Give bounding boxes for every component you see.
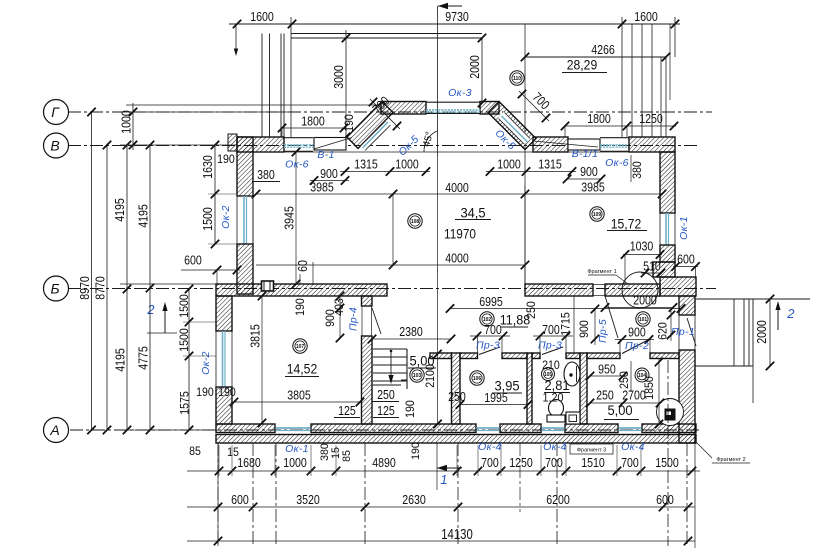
dim chain 4195-4195 (126, 145, 128, 430)
svg-text:2: 2 (786, 306, 795, 321)
svg-text:110: 110 (513, 76, 521, 82)
door Пр-4 opening jamb lines (361, 306, 363, 336)
svg-text:1500: 1500 (177, 328, 191, 352)
svg-text:А: А (49, 422, 59, 438)
svg-text:5,00: 5,00 (409, 353, 434, 369)
vent В-1/1 box (568, 139, 600, 150)
svg-text:В-1: В-1 (317, 149, 334, 161)
svg-text:1715: 1715 (559, 312, 573, 336)
window Ок-1 right glazing (665, 213, 667, 245)
svg-text:1630: 1630 (200, 155, 215, 179)
svg-text:3815: 3815 (248, 324, 263, 348)
window Ок-2 upper glazing (243, 196, 245, 244)
svg-text:125: 125 (338, 403, 356, 418)
svg-text:190: 190 (410, 442, 422, 460)
svg-text:4775: 4775 (136, 346, 151, 370)
svg-text:600: 600 (677, 252, 695, 267)
dim 510 right (641, 272, 661, 274)
axis circle В (44, 133, 69, 158)
window Ок-1 right opening lines (661, 212, 675, 214)
dim 1630-1500 left chain (214, 145, 216, 244)
terrace step lines right (631, 24, 633, 137)
svg-text:1: 1 (440, 472, 448, 487)
svg-text:В: В (50, 138, 59, 154)
svg-text:8970: 8970 (77, 276, 92, 300)
svg-text:190: 190 (217, 152, 235, 166)
svg-text:620: 620 (656, 322, 670, 340)
door Пр-2 jamb lines (619, 339, 621, 353)
svg-text:1800: 1800 (301, 114, 325, 129)
door Пр-4 leaf (372, 308, 381, 334)
dim 2000 vertical at bay (481, 38, 483, 103)
dim chain 8770 (106, 145, 108, 430)
top dimension line (229, 23, 680, 25)
svg-text:250: 250 (596, 388, 614, 403)
svg-text:14,52: 14,52 (287, 361, 318, 377)
dim line 3985-4000-3985 (256, 193, 662, 195)
svg-text:1510: 1510 (581, 455, 605, 470)
svg-text:1000: 1000 (395, 157, 419, 172)
svg-text:700: 700 (481, 455, 499, 470)
room 108 interior outline lines (252, 152, 254, 284)
extension line x291 down to wall (290, 38, 292, 137)
dim 3000 vertical line (345, 30, 347, 137)
svg-text:4890: 4890 (372, 455, 396, 470)
section mark 1 top arrow (438, 5, 462, 7)
room tag 107 (293, 339, 307, 353)
svg-text:28,29: 28,29 (567, 57, 598, 73)
room tag 110 (510, 71, 524, 85)
dim 3805 room 107 (234, 401, 360, 403)
canopy edge line above row В (126, 104, 381, 106)
bay right diagonal wall (488, 102, 536, 150)
dim 900 door Пр-2 (615, 339, 654, 341)
porch top edge line (695, 298, 810, 300)
bottom extension short lines (218, 445, 220, 476)
svg-text:Ок-4: Ок-4 (478, 441, 502, 453)
room tag 101 (636, 312, 650, 326)
window Ок-6 right glazing (600, 144, 629, 146)
room tag 104 (635, 368, 649, 382)
small wall finish top-left corner (228, 134, 237, 151)
section mark 1 bottom (437, 467, 462, 469)
svg-text:34,5: 34,5 (460, 205, 485, 221)
wall stair left partition (362, 296, 373, 306)
dim 1800 bay left line (282, 127, 346, 129)
svg-text:1600: 1600 (250, 9, 274, 24)
axis В line (68, 145, 700, 147)
svg-text:900: 900 (580, 164, 598, 179)
section line 1 vertical (437, 6, 439, 156)
section mark 2 left arrow (164, 304, 166, 333)
left extension horizontal lines (120, 144, 237, 146)
svg-text:210: 210 (542, 358, 560, 372)
svg-text:6200: 6200 (546, 492, 570, 507)
dim 900 В-1/1 line (567, 178, 601, 180)
wall bottom row А outer band (216, 435, 696, 444)
window Ок-6 right opening lines (600, 137, 629, 139)
wall right porch step (660, 277, 696, 296)
svg-text:190: 190 (293, 298, 307, 316)
dim line 1000-1315 right (486, 171, 576, 173)
vent В-1 box (314, 138, 346, 151)
stairs direction arrow (390, 351, 392, 381)
dim line 4000 lower (256, 264, 525, 266)
svg-text:4195: 4195 (113, 348, 128, 372)
corridor bottom wall segment c (566, 353, 580, 359)
svg-text:2000: 2000 (633, 293, 657, 308)
bottom extension dash-dot lines (217, 443, 219, 546)
vent В-1/1 leader line (533, 141, 598, 147)
svg-text:85: 85 (341, 450, 353, 462)
room tag 109 (590, 207, 604, 221)
stairs treads (373, 348, 407, 350)
wall row Б right band 2 (605, 284, 660, 296)
fragment 3 boxed label (570, 444, 613, 454)
svg-text:600: 600 (231, 492, 249, 507)
svg-text:4000: 4000 (445, 251, 469, 266)
vent В-1 leader line (314, 138, 352, 150)
svg-text:1000: 1000 (119, 110, 134, 134)
bottom dim chain row 3 line (187, 540, 695, 542)
wall right exterior lower below door (679, 350, 695, 443)
wall left exterior upper above window (237, 137, 253, 196)
wall partition 105 right (580, 353, 587, 424)
wall right corner step piece (653, 262, 675, 277)
porch step lines (733, 299, 735, 366)
svg-text:3985: 3985 (581, 180, 605, 195)
svg-text:1250: 1250 (509, 455, 533, 470)
window Ок-3 opening lines (426, 101, 480, 103)
svg-text:1030: 1030 (630, 239, 654, 254)
canopy edge lines above bay (291, 33, 482, 35)
svg-text:1250: 1250 (639, 111, 663, 126)
svg-text:3805: 3805 (287, 388, 311, 403)
door Пр-3 a jamb lines (477, 336, 479, 353)
svg-text:250: 250 (377, 387, 395, 402)
door Пр-3 b jamb lines (539, 336, 541, 353)
chain intermediate extension lines left (183, 321, 216, 323)
window Ок-4 b glazing (541, 427, 565, 429)
svg-text:1315: 1315 (354, 157, 378, 172)
room tag 102 (480, 312, 494, 326)
dim chain 1500-1500-1575 (188, 289, 190, 430)
svg-text:8770: 8770 (93, 276, 108, 300)
svg-text:Ок-1: Ок-1 (678, 216, 690, 240)
svg-text:600: 600 (656, 492, 674, 507)
svg-text:Ок-3: Ок-3 (448, 87, 472, 99)
svg-text:2630: 2630 (402, 492, 426, 507)
svg-text:1850: 1850 (642, 376, 656, 400)
window Ок-6 left opening lines (284, 137, 313, 139)
svg-text:Ок-6: Ок-6 (285, 159, 309, 171)
svg-text:4266: 4266 (591, 42, 615, 57)
svg-text:250: 250 (617, 371, 631, 389)
wall partition 105 left (527, 353, 532, 424)
door Пр-5 lintel lines (593, 284, 605, 286)
svg-text:600: 600 (184, 253, 202, 268)
svg-text:Ок-2: Ок-2 (220, 205, 232, 229)
svg-text:15,72: 15,72 (611, 216, 642, 232)
svg-text:5,00: 5,00 (607, 402, 632, 418)
section line 1 through room (437, 156, 439, 339)
svg-text:Пр-5: Пр-5 (597, 319, 609, 343)
svg-text:2000: 2000 (754, 320, 769, 344)
dim 6995 corridor line (450, 308, 681, 310)
svg-text:1,20: 1,20 (542, 391, 563, 405)
window Ок-2 upper opening lines (238, 195, 253, 197)
bay left diagonal wall (347, 102, 393, 149)
svg-text:1600: 1600 (634, 9, 658, 24)
dim 4266 line (525, 56, 666, 58)
wall row В right of bay (533, 137, 568, 152)
corridor bottom wall segment b2 (532, 353, 540, 359)
axis circle А (44, 418, 69, 443)
svg-text:700: 700 (621, 455, 639, 470)
window Ок-4 a glazing (476, 427, 500, 429)
door Пр-2 leaf (622, 340, 648, 354)
boiler fragment 2 circle (657, 399, 684, 426)
wall right exterior upper (660, 152, 675, 213)
svg-text:1575: 1575 (178, 391, 192, 415)
svg-text:Фрагмент 1: Фрагмент 1 (587, 269, 616, 275)
svg-text:85: 85 (189, 444, 201, 458)
svg-text:Пр-2: Пр-2 (625, 340, 649, 352)
svg-text:1000: 1000 (283, 455, 307, 470)
fragment 1 detail circle (622, 272, 658, 308)
wall stub right of stair hall (430, 353, 452, 359)
svg-text:380: 380 (257, 167, 275, 182)
svg-text:900: 900 (628, 325, 646, 340)
svg-text:700: 700 (484, 322, 502, 337)
svg-text:2380: 2380 (399, 324, 423, 339)
door Пр-5 opening jambs (592, 284, 594, 296)
svg-text:250: 250 (448, 389, 466, 404)
window Ок-5 left opening in diagonal (361, 120, 391, 151)
svg-text:403: 403 (332, 298, 346, 316)
svg-text:11970: 11970 (444, 227, 476, 242)
svg-text:Фрагмент 3: Фрагмент 3 (577, 448, 606, 454)
bay top wall left part (381, 102, 426, 115)
dim 700 door a (470, 335, 510, 337)
svg-text:900: 900 (320, 166, 338, 181)
svg-text:1995: 1995 (484, 390, 508, 405)
door Пр-3 b leaf (542, 347, 563, 355)
svg-text:Пр-3: Пр-3 (538, 340, 562, 352)
room tag 103 (410, 368, 424, 382)
svg-text:2: 2 (146, 302, 155, 317)
wall bottom row А inner band (216, 424, 275, 433)
svg-text:950: 950 (598, 362, 616, 377)
svg-text:190: 190 (342, 114, 356, 132)
wash basin room 105 (564, 362, 580, 386)
svg-text:1000: 1000 (497, 157, 521, 172)
svg-text:250: 250 (524, 301, 538, 319)
axis Б line (68, 288, 716, 290)
svg-text:1800: 1800 (587, 111, 611, 126)
svg-text:900: 900 (577, 320, 591, 338)
window Ок-6 left glazing (284, 144, 313, 146)
bay top wall right part (480, 102, 499, 115)
chimney shaft lines top-left (261, 34, 263, 138)
wall row В left segment (237, 137, 284, 152)
room tag 108 (408, 214, 422, 228)
axis circle Г (44, 100, 69, 125)
dim 700 right diagonal (519, 91, 549, 121)
corridor bottom wall segment a (460, 353, 478, 359)
window Ок-5 right opening in diagonal (498, 112, 531, 145)
corridor bottom wall segment e (650, 353, 679, 359)
window Ок-3 glazing (426, 109, 480, 111)
svg-text:2000: 2000 (467, 55, 482, 79)
corridor bottom wall segment b (502, 353, 527, 359)
svg-text:109: 109 (593, 212, 602, 218)
dim 900 В-1 line (310, 180, 349, 182)
dim 700 door b (533, 335, 573, 337)
dim 1000 axis Г-В (132, 103, 134, 150)
bay extension lines into room (392, 194, 394, 265)
dim 2380 stair hall (372, 338, 451, 340)
svg-text:В-1/1: В-1/1 (572, 148, 599, 160)
door Пр-1 leaf (687, 318, 696, 346)
corridor bottom wall segment d (587, 353, 620, 359)
svg-text:190: 190 (196, 385, 214, 399)
axis А line (70, 429, 700, 431)
svg-text:Ок-6: Ок-6 (605, 157, 629, 169)
svg-text:Ок-1: Ок-1 (285, 443, 309, 455)
svg-text:190: 190 (403, 400, 417, 418)
bottom dim chain row 2 line (187, 506, 695, 508)
dim chain 8970 (91, 112, 93, 430)
window Ок-4 c glazing (618, 427, 642, 429)
svg-text:510: 510 (643, 259, 661, 274)
svg-text:1500: 1500 (200, 207, 215, 231)
dim 3945 vertical line (295, 152, 297, 284)
svg-text:3520: 3520 (296, 492, 320, 507)
wall left exterior lower below window (216, 387, 232, 424)
wall left exterior upper below window (237, 244, 253, 294)
room tag 105 (542, 368, 555, 381)
svg-text:Ок-4: Ок-4 (543, 441, 567, 453)
svg-text:107: 107 (296, 344, 305, 350)
dim 3815 vertical room 107 (261, 296, 263, 423)
door Пр-5 leaf (605, 296, 618, 338)
svg-text:1500: 1500 (177, 294, 191, 318)
svg-text:4000: 4000 (445, 180, 469, 195)
svg-text:Б: Б (50, 281, 59, 297)
svg-text:4195: 4195 (136, 204, 151, 228)
svg-text:Пр-3: Пр-3 (476, 340, 500, 352)
svg-text:1680: 1680 (237, 455, 261, 470)
svg-text:106: 106 (473, 376, 482, 382)
dim line 1315-1000 left (340, 171, 430, 173)
wall row Б right band (525, 284, 593, 296)
svg-text:125: 125 (377, 403, 395, 418)
wall right below window (660, 245, 675, 262)
svg-text:Ок-2: Ок-2 (200, 351, 212, 375)
toilet room 105 (549, 400, 564, 417)
axis Г line (68, 111, 712, 113)
extension lines top (235, 24, 237, 53)
porch bottom edge line (695, 365, 753, 367)
svg-text:Фрагмент 2: Фрагмент 2 (716, 457, 745, 463)
svg-text:6995: 6995 (479, 294, 503, 309)
window Ок-1 bottom glazing (275, 427, 311, 429)
room tag 106 (470, 371, 484, 385)
window Ок-2 lower opening lines (217, 330, 232, 332)
washing machine room 105 (566, 412, 580, 424)
svg-text:103: 103 (413, 373, 422, 379)
svg-text:9730: 9730 (445, 9, 469, 24)
svg-text:60: 60 (295, 260, 310, 272)
svg-text:380: 380 (630, 161, 644, 179)
wall left exterior lower above window (216, 296, 232, 331)
door Пр-3 a leaf (479, 347, 500, 355)
dim chain 4195-4775 (149, 145, 151, 430)
dim 1800-1250 right line (565, 125, 676, 127)
dim 2000 porch vertical (769, 299, 771, 366)
svg-text:108: 108 (411, 219, 420, 225)
dim 1030 right (623, 254, 662, 256)
svg-text:700: 700 (542, 322, 560, 337)
door Пр-1 opening jamb lines (678, 315, 680, 350)
svg-text:1500: 1500 (655, 455, 679, 470)
window Ок-2 lower glazing (222, 331, 224, 387)
svg-text:1315: 1315 (538, 157, 562, 172)
flue detail on row Б (262, 281, 274, 291)
svg-text:14130: 14130 (441, 526, 473, 543)
wall row В right corner segment (629, 137, 675, 152)
svg-text:190: 190 (218, 385, 236, 399)
wall right exterior lower above door (679, 296, 695, 315)
wall WC left partition (452, 353, 461, 424)
svg-text:3945: 3945 (282, 206, 297, 230)
section mark 2 right arrow (777, 303, 779, 330)
porch right edge extension (752, 366, 754, 403)
bottom dim chain row 1 line (187, 470, 700, 472)
svg-text:Пр-4: Пр-4 (348, 307, 360, 331)
wall row Б left band (216, 284, 387, 296)
svg-text:4195: 4195 (112, 198, 127, 222)
axis circle Б (44, 276, 69, 301)
svg-text:101: 101 (639, 317, 648, 323)
svg-text:700: 700 (545, 455, 563, 470)
dim 700 left diagonal (370, 99, 400, 129)
building corner extension line bottom-right (694, 439, 696, 548)
svg-text:3000: 3000 (331, 65, 346, 89)
dim 2000 opening row Б (605, 307, 673, 309)
